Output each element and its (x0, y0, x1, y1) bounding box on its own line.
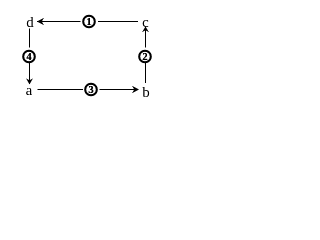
arrowhead up (into c) (142, 27, 149, 33)
wire bottom edge, segment from a to label 3 (38, 89, 84, 91)
svg-text:2: 2 (142, 52, 147, 63)
wire right edge, segment from label 2 down to b (145, 63, 147, 83)
svg-text:d: d (26, 15, 34, 31)
edge label 2 (139, 51, 151, 63)
edge label 3 (85, 84, 97, 96)
svg-text:4: 4 (26, 52, 32, 63)
arrowhead right (into b) (132, 86, 139, 93)
svg-text:3: 3 (88, 85, 93, 96)
svg-text:1: 1 (86, 17, 91, 28)
edge label 4 (23, 51, 35, 63)
wire left edge, segment from d down to label 4 (29, 29, 31, 48)
wire left edge, segment from label 4 down to arrowhead at a (29, 63, 31, 84)
svg-text:c: c (142, 15, 149, 31)
arrowhead down (into a) (26, 78, 33, 84)
wire right edge, segment from arrowhead at c down to label 2 (145, 27, 147, 48)
wire top edge, segment from c side to label 1 (98, 21, 138, 23)
svg-text:a: a (26, 83, 33, 99)
svg-text:b: b (142, 85, 150, 101)
edge label 1 (83, 16, 95, 28)
arrowhead left (into d) (37, 18, 44, 25)
wire bottom edge, segment from label 3 to arrowhead at b (100, 89, 139, 91)
wire top edge, segment from label 1 to arrowhead at d (37, 21, 81, 23)
